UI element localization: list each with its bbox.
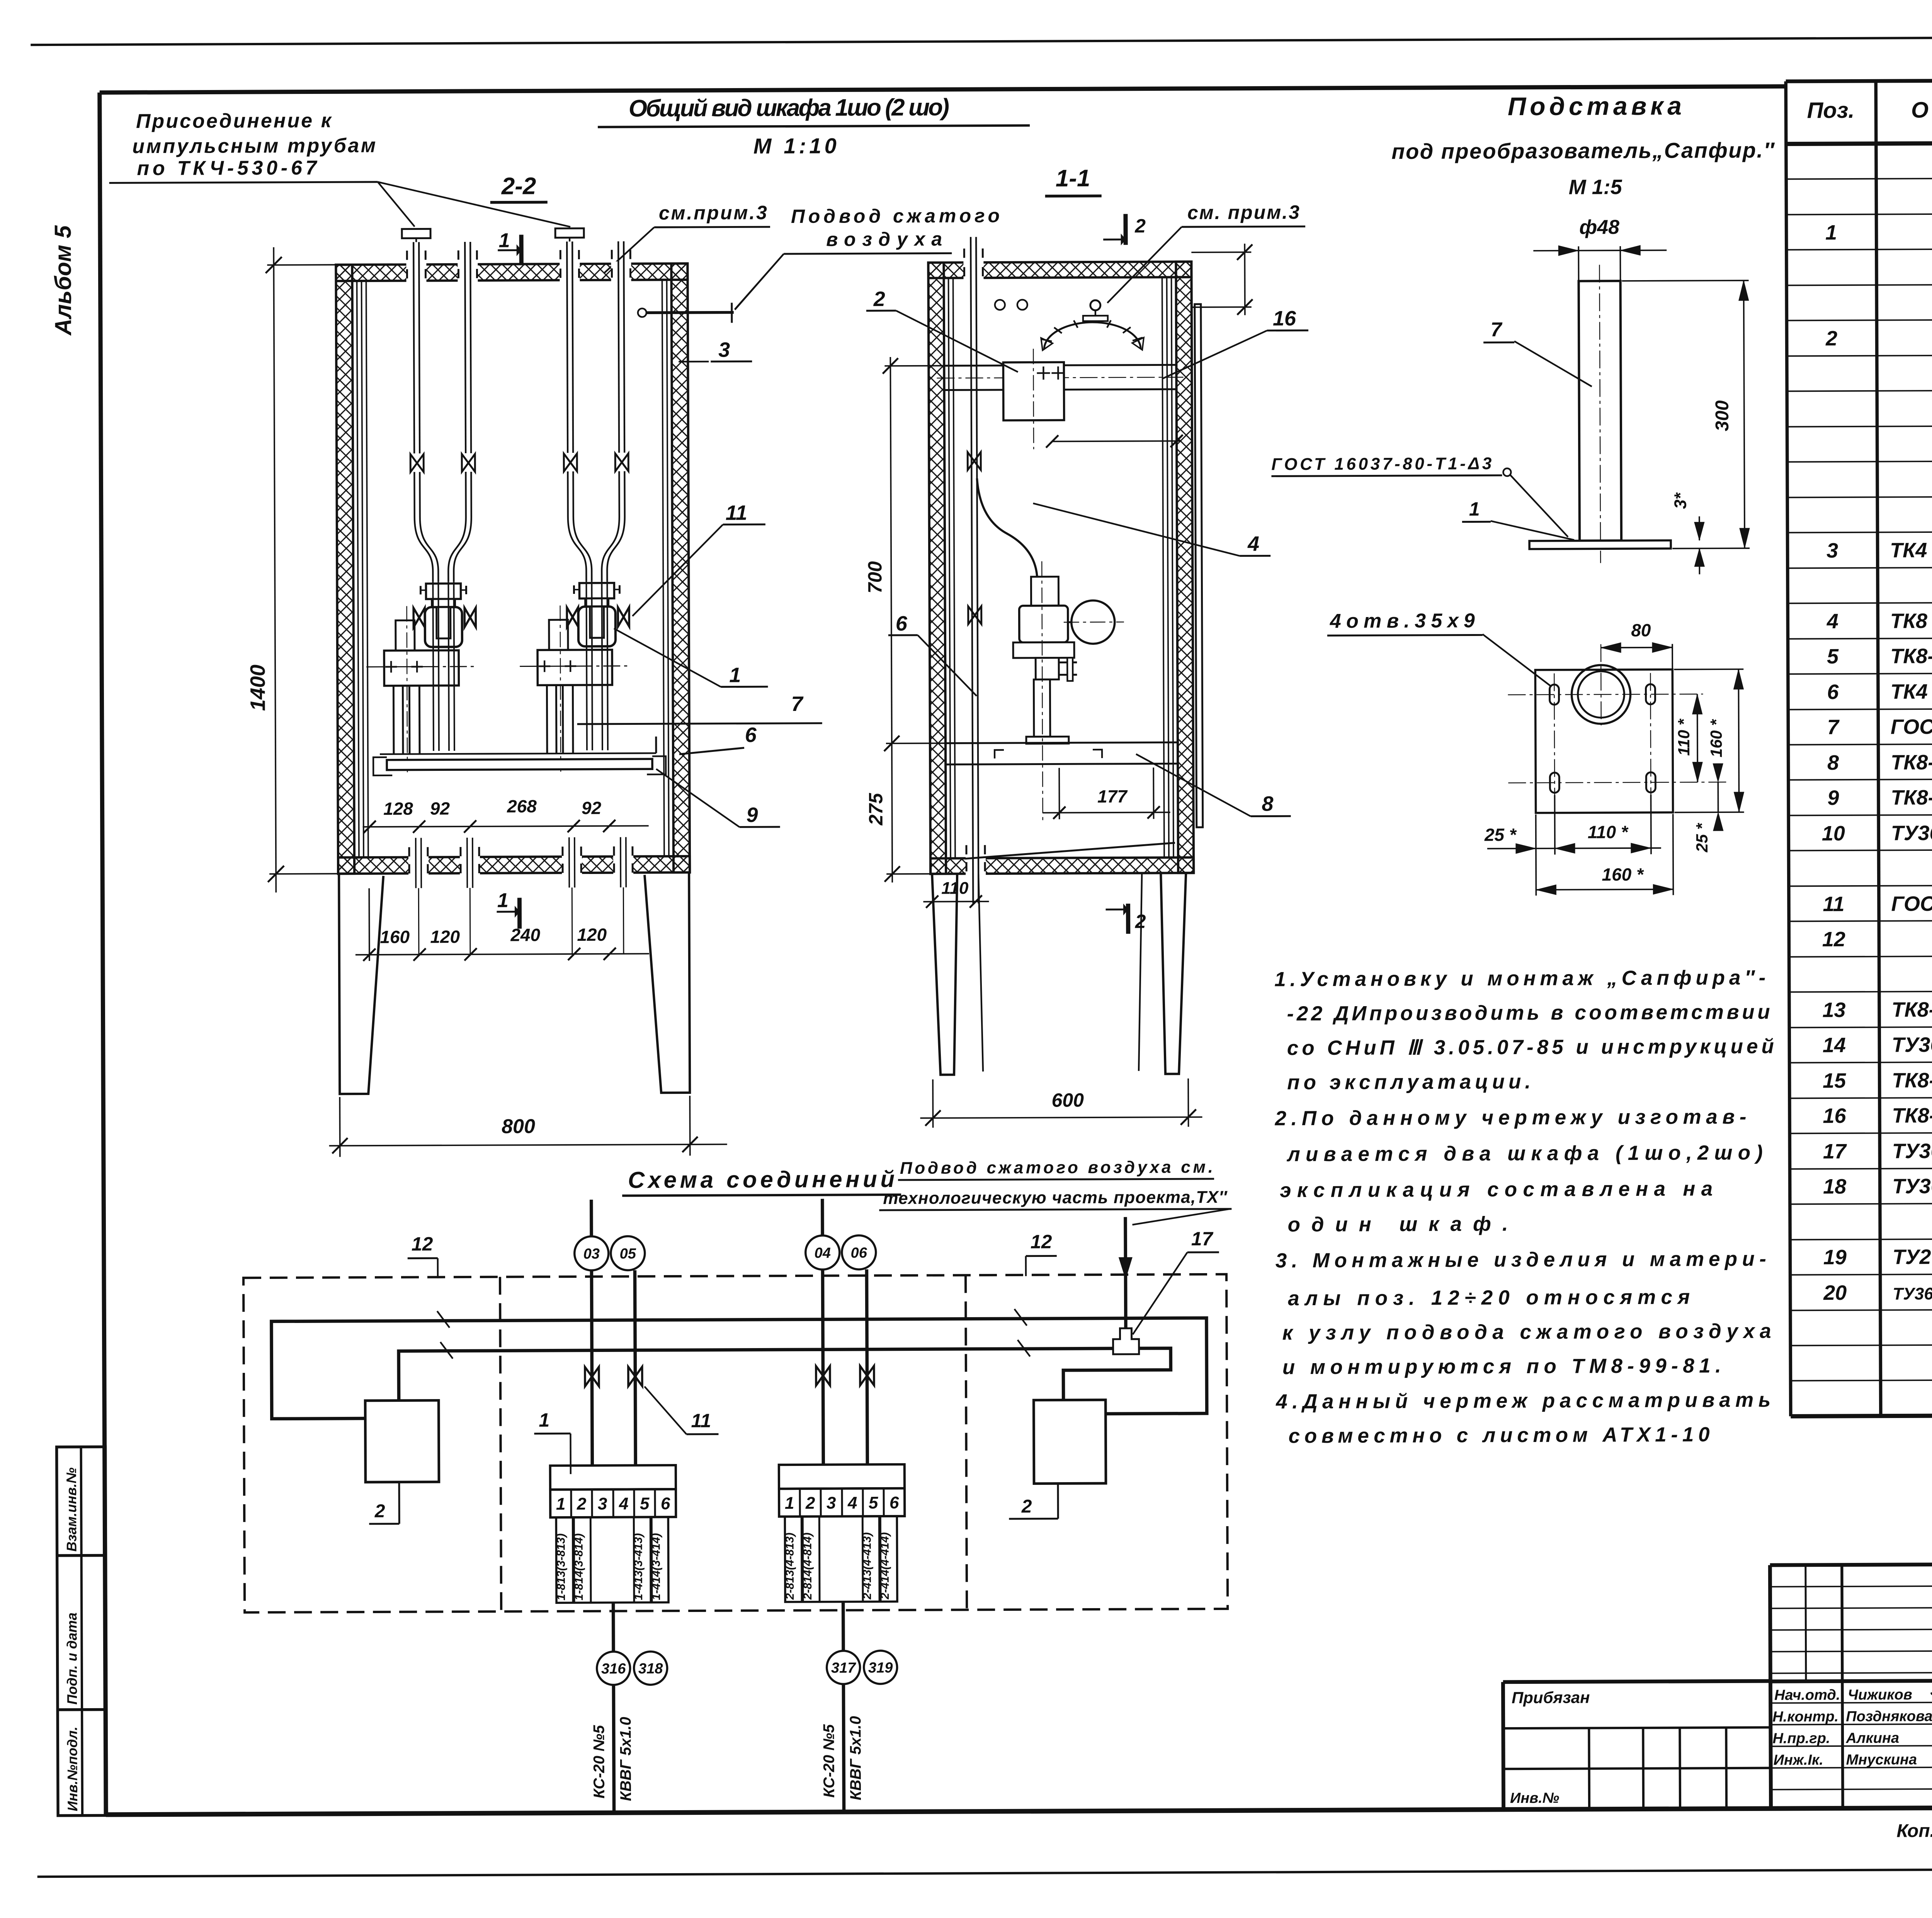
svg-text:и монтируются по ТМ8-99-81.: и монтируются по ТМ8-99-81. [1282,1354,1721,1379]
svg-text:Альбом 5: Альбом 5 [50,225,76,336]
svg-text:4: 4 [847,1493,857,1512]
svg-text:Схема соединений: Схема соединений [628,1166,895,1193]
svg-text:12: 12 [412,1233,433,1255]
svg-text:4: 4 [1827,610,1838,633]
svg-text:импульсным трубам: импульсным трубам [132,134,376,158]
svg-text:2-413(4-413): 2-413(4-413) [861,1532,874,1600]
svg-text:9: 9 [1827,786,1839,809]
svg-text:см.прим.3: см.прим.3 [659,202,767,224]
svg-text:КС-20 №5: КС-20 №5 [820,1724,838,1798]
svg-text:16: 16 [1273,307,1296,330]
svg-text:6: 6 [661,1494,670,1513]
svg-text:ф48: ф48 [1579,216,1619,238]
svg-text:Нач.отд.: Нач.отд. [1774,1687,1840,1704]
svg-text:9: 9 [746,803,758,826]
svg-text:03: 03 [583,1246,600,1262]
svg-text:Н.контр.: Н.контр. [1772,1709,1838,1725]
svg-text:1-814(3-814): 1-814(3-814) [572,1533,585,1600]
svg-text:3: 3 [718,338,730,362]
svg-text:2: 2 [577,1495,587,1513]
svg-text:319: 319 [868,1660,893,1676]
svg-text:Подвод сжатого воздуха см.: Подвод сжатого воздуха см. [900,1158,1213,1178]
svg-text:-22 ДИпроизводить в соответс: -22 ДИпроизводить в соответствии [1287,1001,1770,1025]
svg-text:Подставка: Подставка [1508,92,1682,121]
svg-text:Н.пр.гр.: Н.пр.гр. [1772,1730,1830,1747]
svg-text:4.Данный чертеж рассматрива: 4.Данный чертеж рассматривать [1276,1389,1770,1413]
svg-text:318: 318 [638,1661,663,1677]
svg-text:7: 7 [1827,716,1840,739]
svg-text:Поз.: Поз. [1807,98,1854,123]
svg-text:1-1: 1-1 [1056,165,1090,192]
svg-text:160 *: 160 * [1602,864,1644,884]
svg-text:М 1:5: М 1:5 [1569,175,1622,199]
svg-text:316: 316 [601,1661,626,1677]
svg-text:5: 5 [1827,645,1839,668]
svg-text:Позднякова: Позднякова [1846,1708,1932,1725]
svg-text:300: 300 [1712,400,1733,432]
svg-text:80: 80 [1631,620,1651,640]
svg-text:317: 317 [831,1660,856,1676]
svg-text:2: 2 [1825,327,1837,350]
svg-text:13: 13 [1822,998,1845,1022]
svg-text:3*: 3* [1671,492,1690,509]
svg-text:6: 6 [1827,680,1839,704]
svg-text:ТК8-239-81: ТК8-239-81 [1891,786,1932,809]
svg-text:04: 04 [815,1245,831,1261]
svg-text:8: 8 [1262,792,1273,815]
svg-text:06: 06 [851,1245,867,1261]
svg-text:2: 2 [873,287,885,311]
svg-text:1: 1 [785,1494,794,1513]
svg-text:Взам.инв.№: Взам.инв.№ [63,1467,80,1552]
svg-text:1400: 1400 [246,665,269,711]
svg-text:ТУ36.22.19.06-001-87: ТУ36.22.19.06-001-87 [1893,1284,1932,1304]
svg-text:Инв.№подл.: Инв.№подл. [64,1726,80,1811]
svg-text:14: 14 [1823,1034,1846,1057]
svg-text:3: 3 [1827,539,1838,562]
svg-text:1: 1 [556,1495,566,1513]
svg-text:Алкина: Алкина [1845,1730,1899,1746]
svg-text:ТУ36.1118-84: ТУ36.1118-84 [1892,1033,1932,1056]
svg-text:1: 1 [1825,221,1837,244]
svg-text:7: 7 [1490,318,1502,341]
svg-text:ТК8-226-83: ТК8-226-83 [1892,1104,1932,1127]
svg-text:11: 11 [691,1410,711,1432]
svg-text:2: 2 [1021,1496,1032,1517]
svg-text:алы поз. 12÷20 относятся: алы поз. 12÷20 относятся [1288,1285,1690,1310]
svg-text:ТК4 -3240-89: ТК4 -3240-89 [1890,680,1932,703]
svg-text:1: 1 [539,1409,549,1431]
svg-text:1: 1 [497,889,509,912]
svg-text:16: 16 [1823,1104,1846,1127]
svg-text:ТК8-231-81: ТК8-231-81 [1890,644,1932,668]
svg-text:5: 5 [869,1493,878,1512]
svg-text:20: 20 [1823,1281,1847,1304]
svg-text:25 *: 25 * [1484,825,1517,845]
svg-text:2: 2 [1135,911,1146,932]
svg-text:Коп. Ду —: Коп. Ду — [1896,1821,1932,1841]
svg-text:КВВГ 5х1.0: КВВГ 5х1.0 [847,1716,864,1800]
svg-text:ливается два шкафа (1шо,2ш: ливается два шкафа (1шо,2шо) [1286,1141,1763,1166]
svg-text:177: 177 [1097,786,1128,806]
svg-text:11: 11 [726,501,747,524]
svg-text:11: 11 [1823,893,1844,916]
svg-text:15: 15 [1823,1069,1846,1092]
svg-text:ТК8-248-81: ТК8-248-81 [1892,1068,1932,1092]
svg-text:1: 1 [729,663,741,687]
svg-text:600: 600 [1052,1089,1084,1111]
svg-text:6: 6 [896,612,908,635]
svg-text:4: 4 [1247,532,1259,556]
svg-text:ТК8-226-83: ТК8-226-83 [1891,751,1932,774]
svg-text:18: 18 [1823,1175,1846,1198]
svg-text:КС-20 №5: КС-20 №5 [590,1725,608,1799]
svg-text:6: 6 [889,1493,899,1512]
svg-text:1-414(3-414): 1-414(3-414) [650,1533,663,1600]
svg-text:3: 3 [827,1494,836,1513]
svg-text:1-413(3-413): 1-413(3-413) [632,1533,645,1600]
svg-text:4: 4 [619,1495,629,1513]
svg-text:92: 92 [582,798,602,818]
svg-text:1: 1 [499,230,510,252]
svg-text:12: 12 [1031,1231,1052,1253]
svg-text:128: 128 [383,799,413,819]
svg-text:160: 160 [380,927,410,947]
svg-text:110 *: 110 * [1675,718,1693,756]
svg-text:Общий вид шкафа 1шо (2 шо): Общий вид шкафа 1шо (2 шо) [629,94,949,122]
svg-text:25 *: 25 * [1693,823,1711,853]
svg-text:Чижиков: Чижиков [1848,1687,1912,1703]
svg-text:5: 5 [640,1494,650,1513]
svg-text:8: 8 [1827,751,1839,774]
svg-text:6: 6 [745,723,757,746]
svg-text:ТУ26.07-270-80: ТУ26.07-270-80 [1893,1245,1932,1268]
svg-text:Инж.Iк.: Инж.Iк. [1774,1752,1823,1768]
svg-text:92: 92 [430,798,450,818]
svg-text:технологическую часть проекта,: технологическую часть проекта,ТХ″ [883,1188,1228,1208]
svg-text:240: 240 [510,925,540,945]
svg-text:ТК8-246-81: ТК8-246-81 [1891,998,1932,1021]
svg-text:2: 2 [1134,215,1146,237]
svg-text:110 *: 110 * [1588,822,1629,842]
svg-text:ТУ36.1124-83: ТУ36.1124-83 [1892,1174,1932,1198]
svg-text:275: 275 [865,792,886,826]
svg-text:под преобразователь„Сапфир.″: под преобразователь„Сапфир.″ [1391,138,1775,164]
svg-text:19: 19 [1823,1246,1847,1269]
svg-text:1-813(3-813): 1-813(3-813) [554,1534,568,1601]
svg-text:ТУ36.1130-85: ТУ36.1130-85 [1891,821,1932,845]
svg-text:10: 10 [1822,822,1845,845]
svg-text:ГОСТ 5761-74: ГОСТ 5761-74 [1891,892,1932,915]
svg-text:Подп. и дата: Подп. и дата [64,1612,80,1705]
svg-text:ТУ36.1116-83: ТУ36.1116-83 [1892,1139,1932,1163]
svg-text:2-414(4-414): 2-414(4-414) [878,1532,891,1600]
svg-text:17: 17 [1191,1228,1214,1250]
svg-text:17: 17 [1823,1140,1847,1163]
svg-text:120: 120 [430,927,460,947]
svg-text:КВВГ 5х1.0: КВВГ 5х1.0 [617,1717,634,1801]
svg-text:Инв.№: Инв.№ [1510,1790,1559,1806]
svg-text:1: 1 [1469,498,1480,520]
svg-text:05: 05 [620,1246,636,1262]
svg-text:2: 2 [374,1501,385,1522]
svg-text:ТК8 -232-81: ТК8 -232-81 [1890,609,1932,633]
svg-text:700: 700 [864,561,886,593]
svg-text:по эксплуатации.: по эксплуатации. [1287,1070,1531,1094]
svg-text:со СНиП Ⅲ 3.05.07-85 и инстру: со СНиП Ⅲ 3.05.07-85 и инструкцией [1287,1035,1774,1060]
svg-text:268: 268 [507,796,537,816]
svg-text:ГОСТ-3262-75: ГОСТ-3262-75 [1891,715,1932,738]
svg-text:2-813(4-813): 2-813(4-813) [783,1532,796,1600]
svg-text:120: 120 [577,925,607,945]
svg-text:12: 12 [1822,928,1845,951]
svg-text:7: 7 [791,692,804,716]
svg-text:Мнускина: Мнускина [1846,1751,1917,1768]
svg-text:2-814(4-814): 2-814(4-814) [801,1532,814,1600]
svg-text:3: 3 [598,1495,607,1513]
svg-text:ТК4 -2066-77: ТК4 -2066-77 [1890,538,1932,562]
svg-text:160 *: 160 * [1707,719,1725,757]
svg-text:2: 2 [805,1494,815,1513]
svg-text:Прибязан: Прибязан [1512,1688,1590,1707]
svg-text:110: 110 [941,879,969,898]
svg-text:800: 800 [502,1115,535,1138]
svg-text:см. прим.3: см. прим.3 [1187,201,1299,223]
svg-text:2-2: 2-2 [501,173,536,199]
